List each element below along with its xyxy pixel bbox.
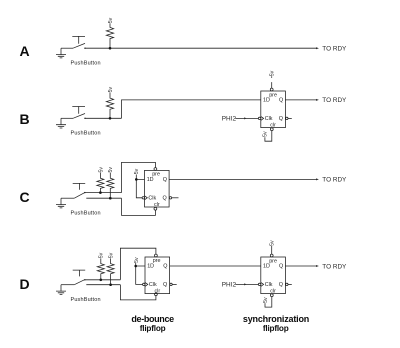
clock bubble (U-D1) <box>143 283 145 285</box>
preset bubble (U-C) <box>154 168 157 171</box>
svg-text:TO RDY: TO RDY <box>322 177 347 184</box>
clock triangle (U-D1) <box>145 282 148 286</box>
arrowhead TO RDY (row C) <box>316 178 319 180</box>
clear bubble (U-D1) <box>155 293 158 296</box>
pushbutton S-C upper contact <box>84 192 85 193</box>
clock triangle (U-B) <box>261 116 264 120</box>
wire switch to TO RDY (row A) <box>85 47 317 49</box>
pushbutton S-D actuator <box>73 270 86 276</box>
pushbutton S-C blade <box>74 193 84 198</box>
svg-text:A: A <box>20 43 30 59</box>
arrowhead TO RDY (row A) <box>316 47 319 49</box>
Qbar bubble (U-C) <box>169 197 171 199</box>
pushbutton S-D blade <box>74 280 84 285</box>
ground (row D) <box>56 285 66 295</box>
wire ground to switch (row D) <box>61 284 74 286</box>
wire Q output (row D) <box>285 265 317 267</box>
svg-text:Q: Q <box>163 282 167 288</box>
svg-text:Clk: Clk <box>148 196 156 202</box>
svg-text:5v: 5v <box>270 70 276 76</box>
junction (row C R2) <box>109 197 112 200</box>
svg-text:PHI2: PHI2 <box>222 282 237 289</box>
wire lower throw to clr (row D debounce) <box>120 285 155 300</box>
wire upper throw to pre (row D debounce) <box>120 248 155 280</box>
svg-text:PushButton: PushButton <box>70 61 100 67</box>
junction (row D R2) <box>109 283 112 286</box>
Qbar bubble (U-B) <box>286 117 288 119</box>
Qbar stub (U-C) <box>172 197 179 199</box>
svg-text:5v: 5v <box>108 17 114 23</box>
svg-text:C: C <box>20 189 30 205</box>
flip-flop U-D2 box (synchronization) <box>261 257 286 294</box>
wire ground to switch (row C) <box>61 197 74 199</box>
svg-text:Clk: Clk <box>265 116 273 122</box>
wire 5v to pre (U-D2) <box>271 246 273 254</box>
svg-text:1D: 1D <box>147 264 154 270</box>
svg-text:synchronization: synchronization <box>243 314 309 324</box>
wire upper throw to pre (row C) <box>122 162 156 192</box>
clock bubble (U-B) <box>258 117 260 119</box>
resistor R2-C <box>107 173 114 199</box>
svg-text:5v: 5v <box>98 167 104 173</box>
pushbutton S-C actuator <box>73 183 86 189</box>
junction (row C R1) <box>99 191 102 194</box>
svg-text:PushButton: PushButton <box>70 297 100 303</box>
svg-text:pre: pre <box>269 258 277 264</box>
svg-text:flipflop: flipflop <box>263 324 289 333</box>
wire 5v to 1D and Clk (row D) <box>136 263 145 284</box>
svg-text:Q: Q <box>163 177 167 183</box>
clock bubble (U-C) <box>142 197 144 199</box>
svg-text:Q: Q <box>279 116 283 122</box>
wire switch to corner (row B) <box>85 117 122 119</box>
pushbutton S-B blade <box>73 114 85 119</box>
preset bubble (U-D2) <box>270 254 273 257</box>
clear bubble (U-C) <box>154 207 157 210</box>
wire PHI2 to clock (row D) <box>235 283 258 285</box>
wire ground to switch (row B) <box>61 117 73 119</box>
pushbutton S-A blade <box>73 43 85 48</box>
resistor R1-D <box>97 258 104 279</box>
svg-text:5v: 5v <box>109 252 115 258</box>
wire 5v to 1D and Clk (row C) <box>136 175 144 198</box>
wire lower throw to clr (row C) <box>122 198 156 215</box>
arrowhead TO RDY (row B) <box>316 99 319 101</box>
arrowhead TO RDY (row D) <box>316 265 319 267</box>
svg-text:Q: Q <box>162 196 166 202</box>
wire 5v to pre (U-B) <box>271 76 273 88</box>
wire Q debounce to 1D sync (row D) <box>170 265 261 267</box>
svg-text:1D: 1D <box>147 177 154 183</box>
svg-text:TO RDY: TO RDY <box>322 97 347 104</box>
junction (row D 1D) <box>134 265 137 268</box>
pushbutton S-B contact <box>84 118 85 119</box>
arrowhead PHI2 (row D) <box>244 283 247 285</box>
arrowhead PHI2 (row B) <box>244 117 247 119</box>
resistor R-B <box>106 93 113 119</box>
lower throw wire (row C) <box>86 197 121 199</box>
ground (row B) <box>56 118 66 128</box>
svg-text:5v: 5v <box>270 240 276 246</box>
svg-text:1D: 1D <box>263 98 270 104</box>
svg-text:5v: 5v <box>134 168 140 174</box>
svg-text:5v: 5v <box>99 252 105 258</box>
svg-text:Clk: Clk <box>149 282 157 288</box>
flip-flop U-D1 box (de-bounce) <box>145 257 170 294</box>
svg-text:5v: 5v <box>134 257 140 263</box>
clock triangle (U-D2) <box>261 282 264 286</box>
svg-text:PushButton: PushButton <box>70 211 100 217</box>
svg-text:clr: clr <box>154 289 160 295</box>
resistor R2-D <box>107 258 114 284</box>
wire clr to 5v (U-D2) <box>265 297 272 308</box>
ground (row A) <box>56 48 66 58</box>
pushbutton S-A actuator <box>72 36 85 43</box>
wire clr to 5v (U-B) <box>265 131 272 142</box>
svg-text:flipflop: flipflop <box>140 324 166 333</box>
svg-text:5v: 5v <box>263 297 269 303</box>
svg-text:PushButton: PushButton <box>70 131 100 137</box>
svg-text:5v: 5v <box>108 87 114 93</box>
ground (row C) <box>56 198 66 208</box>
junction (row A resistor) <box>109 47 112 50</box>
wire ground to switch (row A) <box>61 47 73 49</box>
svg-text:PHI2: PHI2 <box>222 116 237 123</box>
Qbar stub (U-D1) <box>172 283 177 285</box>
junction (row D R1) <box>100 279 103 282</box>
svg-text:de-bounce: de-bounce <box>131 314 174 324</box>
svg-text:5v: 5v <box>263 131 269 137</box>
Qbar stub (U-B) <box>288 117 292 119</box>
junction (row B resistor) <box>109 117 112 120</box>
junction (row C 1D) <box>135 178 138 181</box>
preset bubble (U-B) <box>270 88 273 91</box>
svg-text:Q: Q <box>279 98 283 104</box>
svg-text:B: B <box>20 111 30 127</box>
clock bubble (U-D2) <box>258 283 260 285</box>
resistor R-A <box>106 23 113 48</box>
wire to 1D input (row B) <box>122 100 261 118</box>
upper throw wire (row D) <box>85 279 121 281</box>
svg-text:TO RDY: TO RDY <box>322 46 347 53</box>
clock triangle (U-C) <box>145 196 148 200</box>
clear bubble (U-B) <box>270 128 273 131</box>
flip-flop U-B box <box>261 91 286 128</box>
svg-text:D: D <box>20 276 30 292</box>
svg-text:Clk: Clk <box>265 282 273 288</box>
svg-text:Q: Q <box>279 282 283 288</box>
Qbar stub (U-D2) <box>288 283 292 285</box>
pushbutton S-A contact <box>84 48 85 49</box>
pushbutton S-B actuator <box>72 107 85 114</box>
clear bubble (U-D2) <box>270 294 273 297</box>
preset bubble (U-D1) <box>155 254 158 257</box>
wire Q output (row B) <box>285 99 317 101</box>
svg-text:Q: Q <box>163 264 167 270</box>
flip-flop U-C box <box>145 170 170 207</box>
upper throw wire (row C) <box>85 192 122 194</box>
svg-text:Q: Q <box>279 264 283 270</box>
svg-text:1D: 1D <box>263 264 270 270</box>
svg-text:pre: pre <box>269 92 277 98</box>
wire PHI2 to clock (row B) <box>235 117 258 119</box>
svg-text:5v: 5v <box>108 167 114 173</box>
wire Q output (row C) <box>169 178 317 180</box>
resistor R1-C <box>97 173 104 193</box>
Qbar bubble (U-D2) <box>286 283 288 285</box>
svg-text:TO RDY: TO RDY <box>322 263 347 270</box>
pushbutton S-D upper contact <box>84 279 85 280</box>
Qbar bubble (U-D1) <box>170 283 172 285</box>
lower throw wire (row D) <box>86 284 120 286</box>
svg-text:clr: clr <box>154 202 160 208</box>
